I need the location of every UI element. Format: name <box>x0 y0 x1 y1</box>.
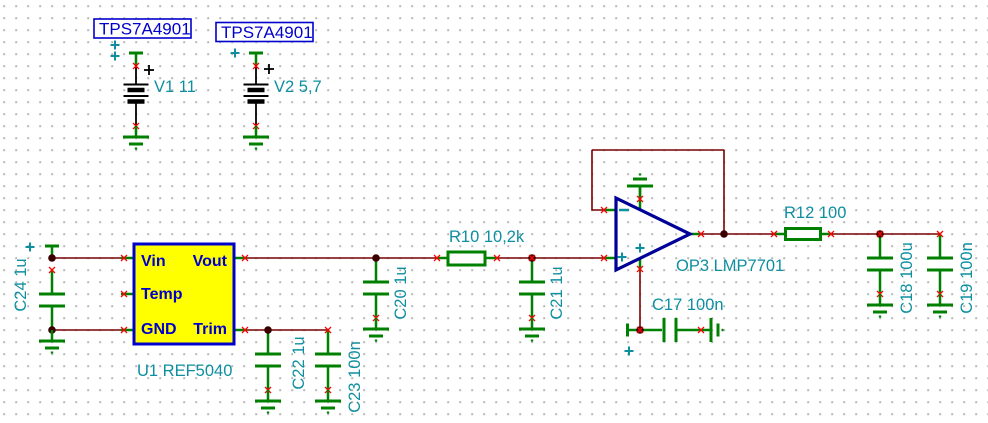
voltage source V1 battery <box>124 66 149 126</box>
terminal post V1 top <box>129 53 143 66</box>
ground below C24 <box>39 330 65 353</box>
pin x R10 left <box>434 255 440 261</box>
ground below C18 <box>867 294 893 317</box>
IC U1 REF5040 body <box>121 244 247 344</box>
pin x C23 bottom <box>325 387 331 393</box>
resistor R10 <box>437 252 497 265</box>
capacitor C20 <box>363 258 389 318</box>
supply plus mark C17 <box>625 347 634 356</box>
voltage source V1 label box TPS7A4901 <box>94 19 191 39</box>
pin x C18 top <box>877 231 883 237</box>
supply plus mark V2 <box>231 49 240 58</box>
capacitor C23 <box>315 330 341 390</box>
ground below C21 <box>519 318 545 341</box>
pin x OP3 plus <box>601 255 607 261</box>
terminal post C24 top <box>45 246 59 259</box>
svg-text:C18 100u: C18 100u <box>898 242 916 314</box>
pin x V2 bottom <box>253 123 259 129</box>
wire: C21 to OP3 plus input <box>532 257 604 259</box>
pin x R10 right <box>494 255 500 261</box>
node C18 top <box>876 230 884 238</box>
svg-text:R12 100: R12 100 <box>784 204 846 222</box>
pin x U1 Vin <box>121 255 127 261</box>
pin x V2 top <box>253 63 259 69</box>
svg-text:R10 10,2k: R10 10,2k <box>449 228 525 246</box>
op-amp OP3 LMP7701 <box>604 186 701 271</box>
svg-text:C21 1u: C21 1u <box>548 266 566 319</box>
svg-text:C19 100n: C19 100n <box>958 242 976 314</box>
pin x C19 top <box>937 231 943 237</box>
ground below C20 <box>363 318 389 341</box>
supply plus mark C24 <box>26 243 35 252</box>
pin x C24 top <box>49 267 55 273</box>
ground below C22 <box>255 390 281 413</box>
capacitor C24 <box>39 270 65 330</box>
ground below C23 <box>315 390 341 413</box>
pin x V1 bottom <box>133 123 139 129</box>
svg-text:C23 100n: C23 100n <box>346 341 364 413</box>
plus polarity mark V2 <box>264 64 274 74</box>
node C21 top <box>528 254 536 262</box>
wire Vout net: U1 Vout to C20 <box>245 257 376 259</box>
capacitor C18 <box>867 234 893 294</box>
ground below V2 <box>243 126 269 149</box>
wire: C18 to C19 <box>880 233 940 235</box>
svg-text:C22 1u: C22 1u <box>290 336 308 389</box>
node OP3 feedback junction <box>720 230 728 238</box>
pin x C21 bottom <box>529 315 535 321</box>
node C22 top <box>264 326 272 334</box>
node C17 junction <box>636 326 644 334</box>
voltage source V2 label box TPS7A4901 <box>216 23 313 43</box>
terminal post V2 top <box>249 53 263 66</box>
svg-text:TPS7A4901: TPS7A4901 <box>99 20 191 39</box>
pin x OP3 top supply <box>637 196 643 202</box>
pin x OP3 bottom supply <box>637 266 643 272</box>
ground below V1 <box>123 126 149 149</box>
pin x R12 right <box>828 231 834 237</box>
ground right of C17 <box>711 318 723 342</box>
pin x C18 bottom <box>877 291 883 297</box>
pin x R12 left <box>771 231 777 237</box>
wire: feedback right leg <box>723 150 725 234</box>
capacitor C22 <box>255 330 281 390</box>
pin x C23 top <box>325 327 331 333</box>
capacitor C21 <box>519 258 545 318</box>
ground above OP3 positive supply <box>627 175 653 198</box>
svg-text:TPS7A4901: TPS7A4901 <box>221 23 313 42</box>
wire Vin net: C24 top to U1 Vin <box>52 257 123 259</box>
pin x on C17 junction <box>637 327 643 333</box>
svg-text:C20 1u: C20 1u <box>392 266 410 319</box>
pin x U1 Temp <box>121 291 127 297</box>
pin x U1 Trim <box>242 327 248 333</box>
wire: C22 to C23 <box>268 329 328 331</box>
svg-text:Vin: Vin <box>141 253 166 270</box>
pin x OP3 minus <box>601 207 607 213</box>
svg-text:Trim: Trim <box>193 321 227 338</box>
svg-text:OP3 LMP7701: OP3 LMP7701 <box>676 257 784 275</box>
wire: OP3 negative supply to C17 <box>639 271 641 330</box>
pin x C20 bottom <box>373 315 379 321</box>
wire: feedback left leg <box>592 150 604 210</box>
node C20 top <box>372 254 380 262</box>
pin x C22 bottom <box>265 387 271 393</box>
node C24 bottom junction <box>48 326 56 334</box>
pin x C21 top <box>529 255 535 261</box>
svg-text:Vout: Vout <box>193 253 228 270</box>
voltage source V2 battery <box>244 66 269 126</box>
svg-text:GND: GND <box>141 321 177 338</box>
pin x U1 GND <box>121 327 127 333</box>
svg-text:V2 5,7: V2 5,7 <box>274 78 322 96</box>
svg-text:C24 1u: C24 1u <box>12 258 30 311</box>
svg-text:C17 100n: C17 100n <box>652 296 724 314</box>
svg-text:Temp: Temp <box>141 286 183 303</box>
node C24 top junction <box>48 254 56 262</box>
pin x V1 top <box>133 63 139 69</box>
wire: R12 right to C18 <box>830 233 880 235</box>
wire: feedback top <box>592 149 724 151</box>
wire: R10 right to C21 <box>496 257 532 259</box>
pin x C19 bottom <box>937 291 943 297</box>
wire: feedback node to R12 left <box>724 233 775 235</box>
svg-text:V1 11: V1 11 <box>154 78 196 96</box>
wire: C20 to R10 left <box>376 257 438 259</box>
supply plus marks V1 <box>111 41 120 50</box>
capacitor C17 <box>628 318 711 342</box>
svg-text:U1 REF5040: U1 REF5040 <box>137 362 232 380</box>
plus polarity mark V1 <box>144 65 154 75</box>
capacitor C19 <box>927 234 953 294</box>
wire Trim net: U1 Trim to C22 <box>245 329 268 331</box>
ground below C19 <box>927 294 953 317</box>
pin x C17 right <box>698 327 704 333</box>
wire GND net: C24 bottom to U1 GND <box>52 329 123 331</box>
pin x U1 Vout <box>242 255 248 261</box>
pin x OP3 output <box>698 231 704 237</box>
wire: OP3 output to feedback node <box>701 233 724 235</box>
resistor R12 <box>774 229 832 240</box>
